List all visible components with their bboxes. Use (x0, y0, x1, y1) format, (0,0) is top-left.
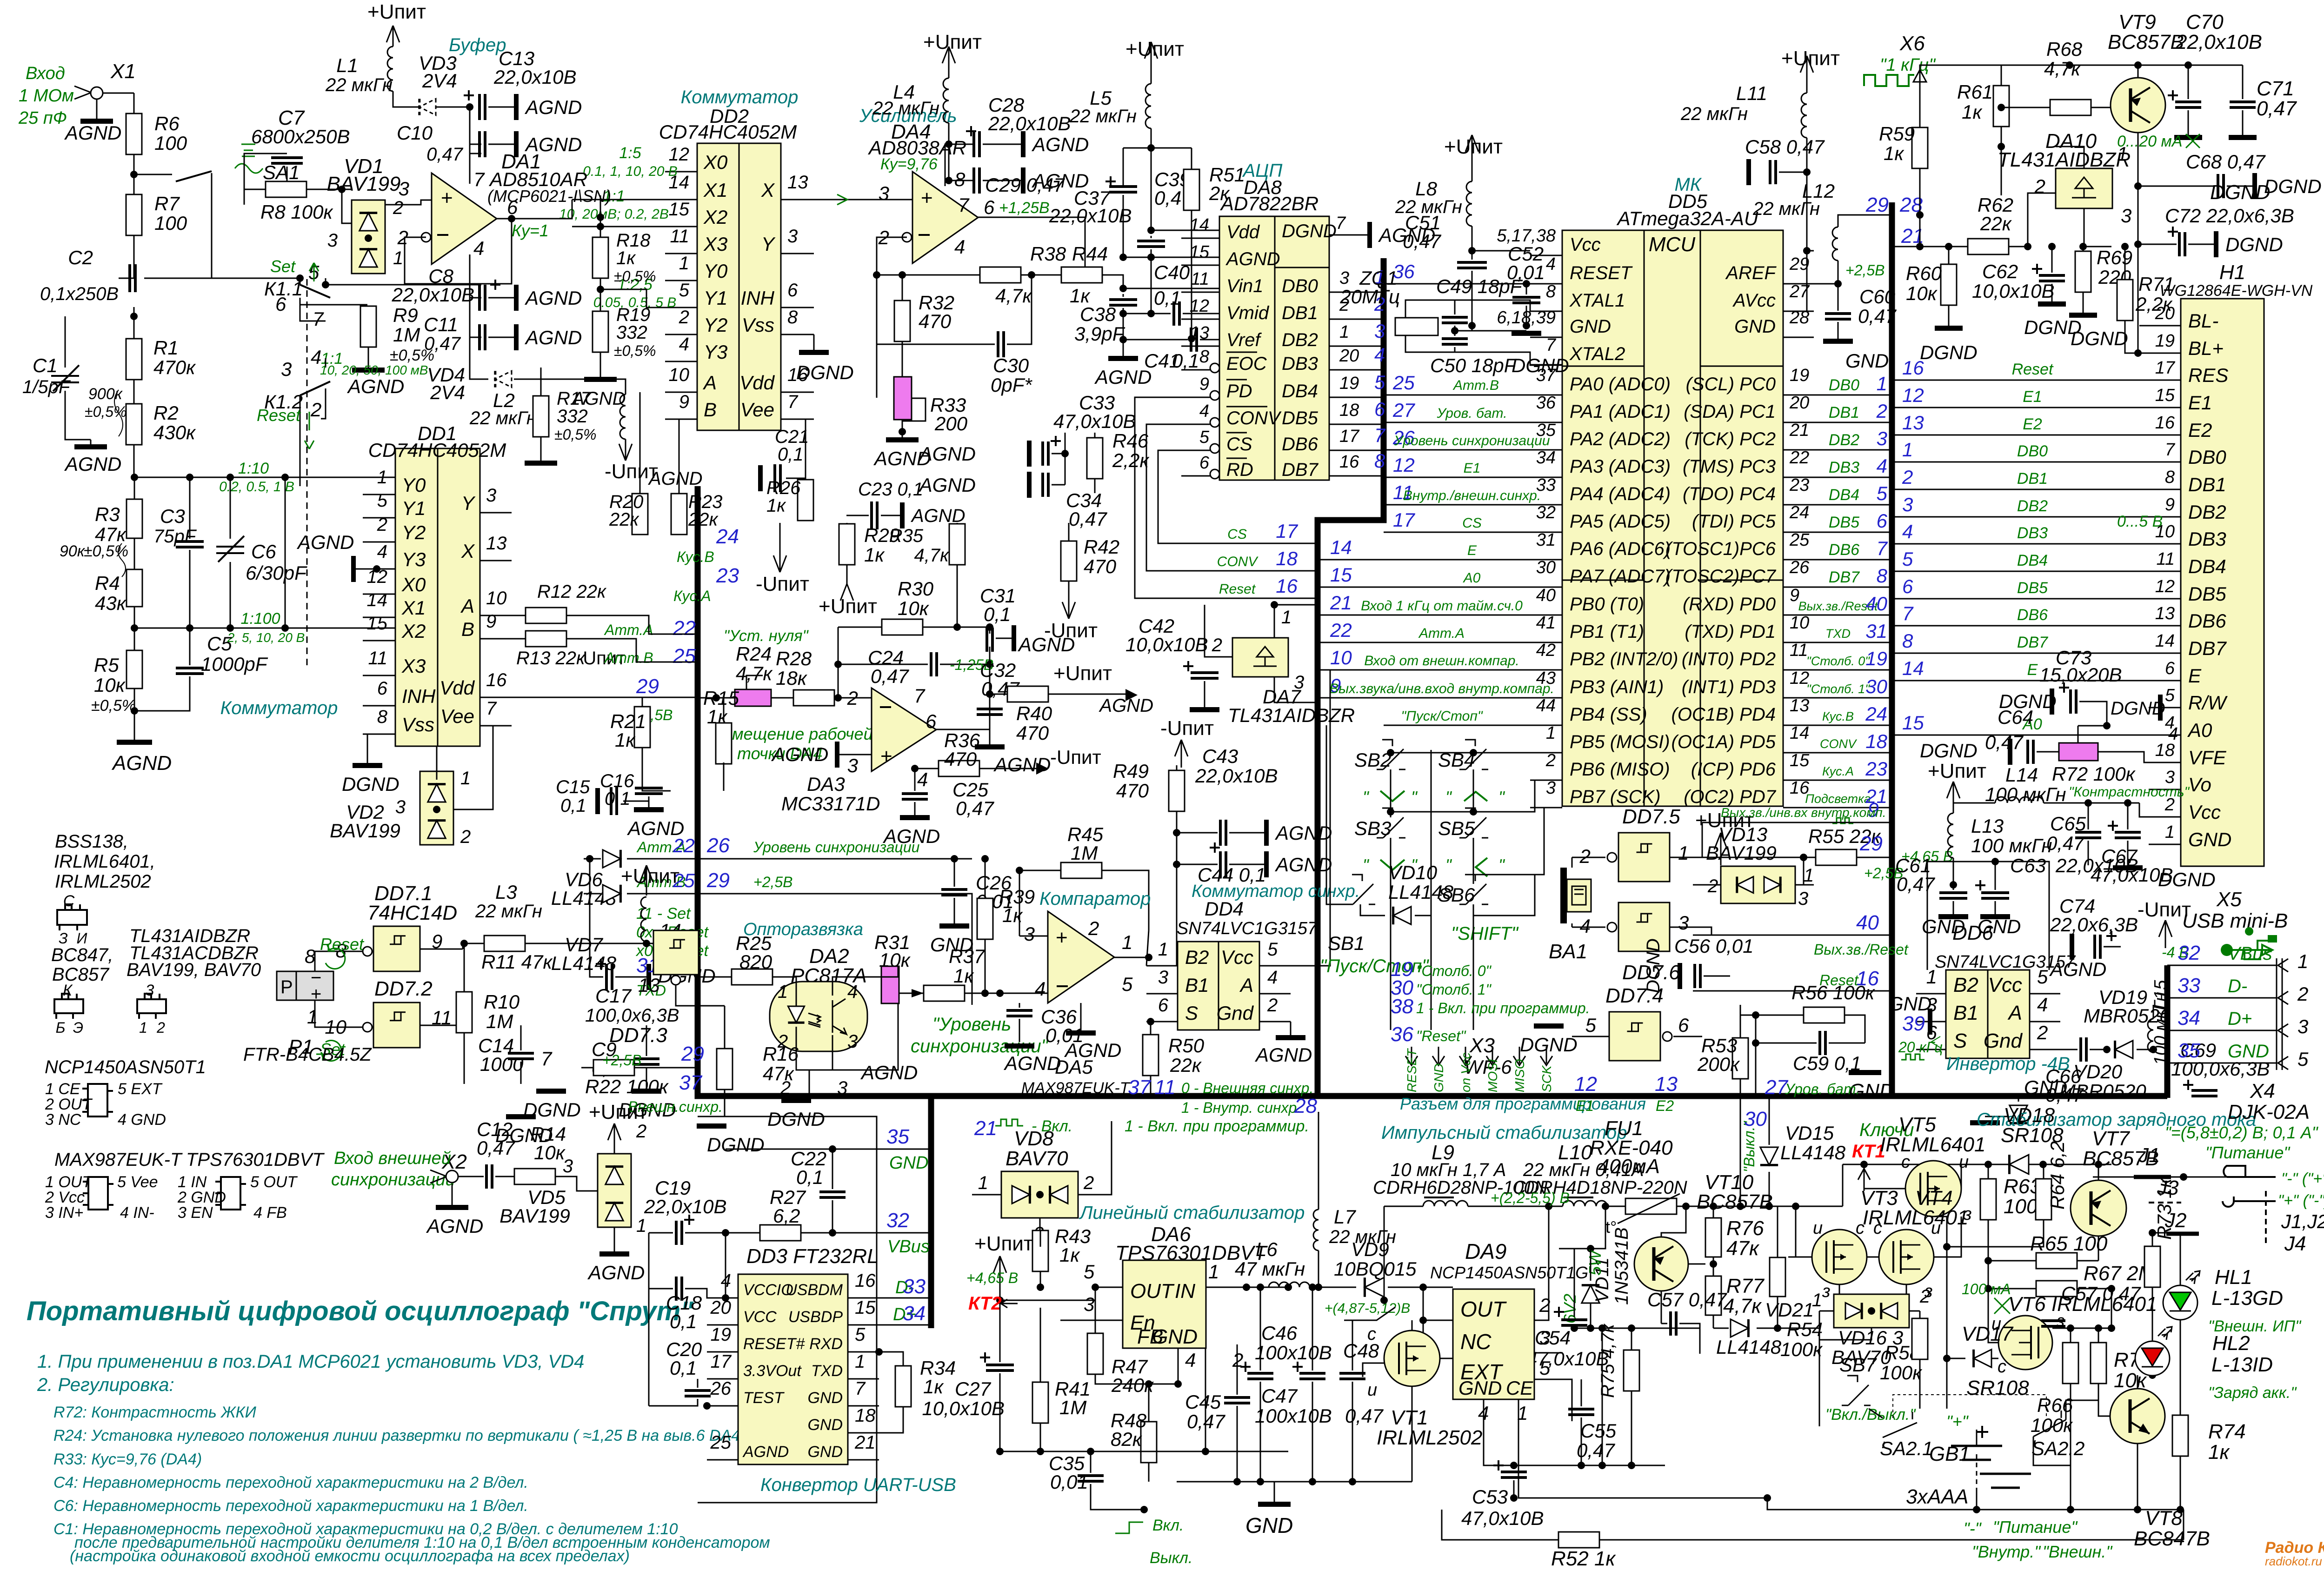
svg-text:C5: C5 (207, 633, 232, 655)
svg-text:PA2 (ADC2): PA2 (ADC2) (1570, 429, 1671, 449)
svg-text:(SCL) PC0: (SCL) PC0 (1686, 374, 1776, 394)
svg-text:11: 11 (1154, 1076, 1176, 1099)
svg-text:"Reset": "Reset" (1416, 1028, 1466, 1044)
svg-text:15: 15 (2155, 386, 2175, 405)
led HL1 L-13GD (2163, 1285, 2197, 1320)
svg-text:1к: 1к (953, 965, 974, 987)
svg-text:2,2к: 2,2к (1112, 449, 1150, 471)
svg-text:16: 16 (1339, 452, 1359, 472)
svg-text:900к: 900к (88, 385, 123, 403)
svg-text:C6: C6 (251, 541, 276, 562)
svg-text:З: З (59, 930, 68, 947)
svg-text:5: 5 (855, 1324, 866, 1345)
svg-text:VCC: VCC (743, 1308, 777, 1326)
svg-text:AGND: AGND (64, 122, 121, 144)
svg-text:MAX987EUK-T: MAX987EUK-T (1021, 1079, 1131, 1097)
svg-text:1N5341B: 1N5341B (1611, 1227, 1632, 1305)
svg-text:3 NC: 3 NC (45, 1111, 81, 1129)
svg-text:7: 7 (313, 308, 324, 330)
svg-text:X0: X0 (401, 574, 426, 595)
wire DA5 + (1019, 936, 1048, 937)
svg-text:"-" ("+"): "-" ("+") (2281, 1170, 2324, 1188)
wire MCU PD row Кус.А (1814, 780, 1892, 781)
wire DB0 to H1 (1892, 461, 2149, 463)
svg-text:A: A (1239, 974, 1253, 996)
svg-text:и: и (1813, 1218, 1823, 1238)
wire MCU row 11 (1384, 504, 1562, 506)
svg-text:Вкл.: Вкл. (1152, 1517, 1184, 1534)
svg-text:Vdd: Vdd (439, 677, 475, 699)
svg-text:C57 0,47: C57 0,47 (1647, 1289, 1727, 1310)
svg-text:SB3: SB3 (1354, 817, 1391, 839)
svg-text:3 IN+: 3 IN+ (45, 1204, 83, 1222)
svg-text:DB6: DB6 (1829, 541, 1859, 559)
resistor R44 1к (1061, 267, 1102, 283)
svg-text:BC847,: BC847, (51, 945, 113, 965)
svg-text:6: 6 (1158, 995, 1169, 1016)
svg-text:(INT0) PD2: (INT0) PD2 (1682, 649, 1776, 669)
svg-text:R38: R38 (1030, 243, 1066, 265)
svg-text:(TXD) PD1: (TXD) PD1 (1685, 622, 1776, 642)
svg-text:1к: 1к (1059, 1244, 1080, 1266)
svg-text:1: 1 (855, 1351, 865, 1372)
svg-text:22: 22 (1789, 448, 1809, 468)
wire VD16 to VT2 column (1819, 1311, 1820, 1426)
wire DD7.6 row to bus (1702, 927, 1711, 935)
svg-text:FTR-B4CB4.5Z: FTR-B4CB4.5Z (243, 1044, 372, 1065)
capacitor C67 47,0х10В (2115, 832, 2141, 838)
section box UART-USB (698, 1116, 877, 1503)
svg-text:NC: NC (1460, 1330, 1492, 1354)
svg-text:19: 19 (1865, 648, 1887, 669)
inductor L1 22 мкГн (393, 26, 394, 47)
wire 1:100 row (134, 628, 395, 629)
svg-text:USBDM: USBDM (786, 1281, 843, 1299)
svg-text:X4: X4 (2250, 1080, 2275, 1103)
svg-text:GND: GND (1570, 316, 1611, 337)
svg-text:23: 23 (716, 564, 739, 587)
switch SA2.1 (1883, 1412, 1917, 1448)
svg-text:430к: 430к (153, 421, 196, 443)
svg-text:3: 3 (1798, 889, 1808, 909)
svg-text:0,1: 0,1 (984, 603, 1011, 625)
svg-text:4: 4 (917, 769, 928, 790)
inductor L7 22 мкГн (1313, 1210, 1318, 1250)
svg-text:Коммутатор: Коммутатор (220, 698, 338, 718)
svg-text:OUT: OUT (1130, 1280, 1175, 1303)
button SB3 (1377, 808, 1405, 838)
ground AGND bottom attenuator (134, 711, 135, 740)
svg-text:X1: X1 (401, 597, 426, 619)
svg-text:(MCP6021-I\SN): (MCP6021-I\SN) (487, 187, 611, 206)
resistor R18 1к (593, 237, 608, 278)
svg-text:21: 21 (1789, 421, 1809, 440)
svg-text:P: P (280, 977, 293, 997)
svg-text:(RXD) PD0: (RXD) PD0 (1683, 594, 1776, 615)
svg-text:R6: R6 (154, 113, 180, 134)
svg-text:1: 1 (1281, 607, 1292, 628)
svg-text:2: 2 (1088, 917, 1099, 939)
svg-text:±0,5%: ±0,5% (390, 347, 434, 364)
svg-text:41: 41 (1536, 613, 1556, 633)
svg-text:7: 7 (1902, 602, 1914, 624)
svg-text:4: 4 (847, 982, 858, 1002)
svg-text:Y1: Y1 (402, 497, 426, 519)
svg-text:1:10: 1:10 (238, 460, 269, 477)
resistor R50 22к (1143, 1035, 1159, 1076)
svg-text:L7: L7 (1334, 1206, 1356, 1228)
svg-text:90к: 90к (60, 542, 86, 560)
svg-text:7: 7 (2165, 440, 2176, 460)
svg-text:8: 8 (305, 945, 316, 967)
svg-text:"Внешн.": "Внешн." (2043, 1542, 2113, 1561)
svg-text:4 GND: 4 GND (118, 1111, 166, 1129)
svg-text:R2: R2 (153, 402, 179, 424)
ground AGND at DA8 DGND (1367, 222, 1372, 248)
svg-text:0,47: 0,47 (1187, 1411, 1225, 1432)
wire button row PB5 (1391, 752, 1562, 754)
diode VD1 BAV199 (352, 200, 385, 274)
pin MOSI X3 (1486, 1047, 1498, 1065)
wire MCU row 26 (1384, 449, 1562, 451)
wire DB1 to H1 (1892, 489, 2149, 490)
svg-text:47к: 47к (1726, 1237, 1760, 1260)
svg-text:0,47: 0,47 (477, 1137, 515, 1159)
svg-text:4: 4 (1035, 978, 1045, 1000)
svg-text:19: 19 (2155, 331, 2175, 351)
power -Uпит R26 (779, 523, 781, 572)
svg-text:R71: R71 (2138, 273, 2174, 295)
svg-text:VT7: VT7 (2092, 1127, 2130, 1150)
svg-text:2: 2 (2034, 175, 2045, 197)
svg-text:6: 6 (926, 710, 937, 732)
svg-text:1: 1 (1158, 939, 1168, 960)
svg-text:47к: 47к (763, 1063, 795, 1084)
svg-text:+Uпит: +Uпит (1928, 760, 1986, 782)
svg-text:DB4: DB4 (2017, 552, 2048, 569)
svg-text:Линейный стабилизатор: Линейный стабилизатор (1079, 1203, 1305, 1223)
svg-text:"Уровень: "Уровень (932, 1014, 1011, 1035)
svg-text:C2: C2 (68, 247, 93, 268)
svg-text:R9: R9 (393, 304, 418, 326)
wire dashed relay link (300, 278, 301, 285)
svg-text:17: 17 (2155, 358, 2176, 378)
svg-text:39: 39 (1902, 1012, 1925, 1035)
svg-text:5 OUT: 5 OUT (250, 1173, 298, 1191)
svg-text:3.3VOut: 3.3VOut (743, 1362, 802, 1380)
svg-text:PD: PD (1226, 381, 1252, 401)
svg-text:BAV199: BAV199 (1706, 842, 1777, 864)
svg-text:GND: GND (2188, 829, 2231, 850)
svg-text:10,0х10В: 10,0х10В (922, 1397, 1005, 1419)
svg-text:Vref: Vref (1226, 330, 1262, 350)
svg-text:DB4: DB4 (1829, 486, 1859, 504)
svg-text:4,7к: 4,7к (736, 662, 773, 684)
svg-text:R59: R59 (1879, 123, 1915, 145)
svg-text:DGND: DGND (1643, 938, 1664, 993)
resistor R9 1M (360, 306, 376, 347)
svg-text:(SDA) PC1: (SDA) PC1 (1684, 401, 1776, 422)
svg-text:2: 2 (1707, 876, 1718, 896)
button SB5 (1459, 808, 1488, 838)
svg-text:VT9: VT9 (2118, 11, 2156, 33)
wire MCU row 36 (1384, 283, 1562, 285)
svg-text:SN74LVC1G3157: SN74LVC1G3157 (1177, 919, 1318, 938)
svg-text:A0: A0 (1463, 570, 1481, 586)
wire DB6 from DD5 (1783, 559, 1892, 561)
ground AGND C32 (989, 717, 991, 744)
svg-text:GND: GND (1888, 993, 1931, 1015)
svg-text:34: 34 (1536, 448, 1556, 468)
svg-text:2V4: 2V4 (430, 381, 465, 403)
svg-text:3: 3 (399, 178, 409, 200)
svg-text:": " (1411, 788, 1418, 807)
svg-text:": " (1363, 856, 1370, 875)
wire DA3 out (936, 664, 990, 729)
svg-text:(ICP) PD6: (ICP) PD6 (1691, 759, 1776, 780)
svg-text:1к: 1к (864, 544, 885, 566)
svg-text:B1: B1 (1953, 1002, 1978, 1024)
svg-text:DD7.2: DD7.2 (374, 977, 433, 1000)
resistor R39 1к (977, 898, 993, 939)
svg-text:PB7 (SCK): PB7 (SCK) (1570, 787, 1661, 807)
svg-text:X3: X3 (703, 233, 727, 255)
svg-text:+Uпит: +Uпит (367, 0, 426, 23)
ground AGND at X1 (96, 99, 98, 119)
resistor R14 10к (514, 1169, 555, 1184)
svg-text:PA6 (ADC6): PA6 (ADC6) (1570, 539, 1671, 559)
svg-text:DGND: DGND (1282, 221, 1337, 241)
ground AGND DD4 (1290, 1022, 1292, 1035)
svg-text:11: 11 (2157, 549, 2175, 569)
svg-text:34: 34 (2178, 1007, 2200, 1030)
svg-text:4,7к: 4,7к (914, 545, 950, 566)
svg-text:L3: L3 (495, 881, 517, 903)
svg-text:AGND: AGND (346, 375, 404, 397)
svg-text:12: 12 (1902, 384, 1924, 406)
svg-text:R40: R40 (1016, 702, 1052, 724)
wire 1:10 row (134, 477, 395, 478)
wire DA5 - (1000, 993, 1048, 994)
svg-text:C64: C64 (1998, 706, 2033, 728)
svg-text:6: 6 (1877, 510, 1888, 532)
svg-text:0,47: 0,47 (956, 797, 994, 819)
trimmer R72 100к (2059, 743, 2098, 761)
resistor R70 10к (2091, 1343, 2106, 1384)
svg-text:3: 3 (1084, 1293, 1094, 1315)
svg-text:Ку=1: Ку=1 (512, 221, 549, 240)
wire DA9 gnd rail (1484, 1399, 1665, 1465)
svg-text:22 мкГн: 22 мкГн (872, 98, 939, 119)
svg-text:DGND: DGND (2225, 234, 2283, 255)
svg-text:C68 0,47: C68 0,47 (2186, 151, 2266, 173)
svg-text:Y1: Y1 (704, 287, 727, 309)
svg-text:R64 6,2: R64 6,2 (2046, 1141, 2068, 1210)
svg-text:DB5: DB5 (1829, 514, 1859, 531)
svg-text:1:100: 1:100 (240, 610, 280, 628)
svg-text:22 мкГн: 22 мкГн (325, 75, 393, 95)
ground AGND at DD1 Y3 (351, 556, 356, 582)
svg-text:8: 8 (954, 168, 966, 190)
inverter DD7.4 (1609, 1012, 1660, 1061)
svg-text:5: 5 (1877, 482, 1888, 504)
diode VD2 BAV199 (420, 771, 453, 845)
svg-text:DB6: DB6 (2017, 606, 2048, 624)
wire DB3 from DD5 (1783, 477, 1892, 478)
resistor R34 1к (895, 1366, 911, 1407)
svg-text:31: 31 (1865, 620, 1887, 642)
svg-text:R68: R68 (2046, 38, 2083, 60)
svg-text:R54: R54 (1787, 1318, 1823, 1340)
svg-text:D+: D+ (2228, 1009, 2252, 1029)
transistor VT1 IRLML2502 (1384, 1330, 1440, 1386)
svg-text:3: 3 (787, 226, 798, 247)
svg-text:GND: GND (1734, 316, 1776, 337)
svg-text:4 FB: 4 FB (253, 1204, 287, 1222)
svg-text:-Uпит: -Uпит (1050, 746, 1101, 768)
svg-text:GND: GND (1152, 1325, 1198, 1348)
svg-text:+(2,2-5,5) В: +(2,2-5,5) В (1491, 1190, 1570, 1206)
svg-text:+Uпит: +Uпит (1444, 135, 1503, 158)
svg-text:3: 3 (1877, 428, 1887, 449)
svg-text:0 - Внешняя синхр.: 0 - Внешняя синхр. (1181, 1080, 1313, 1096)
svg-text:D-: D- (2228, 976, 2247, 996)
svg-text:3: 3 (146, 982, 154, 999)
svg-text:J3: J3 (2157, 1177, 2179, 1199)
svg-text:XTAL1: XTAL1 (1569, 290, 1625, 311)
svg-text:Vcc: Vcc (2188, 801, 2221, 823)
svg-text:AD7822BR: AD7822BR (1219, 193, 1318, 214)
svg-text:0,1: 0,1 (1154, 287, 1181, 309)
svg-text:-Uпит: -Uпит (756, 573, 809, 595)
svg-text:18: 18 (855, 1405, 876, 1426)
svg-text:R13 22к: R13 22к (516, 648, 586, 669)
svg-text:470: 470 (1016, 722, 1049, 744)
resistor R16 47к (717, 1049, 732, 1090)
wire row CS left (1158, 450, 1318, 543)
svg-text:100к: 100к (1880, 1362, 1923, 1384)
svg-text:(INT1) PD3: (INT1) PD3 (1682, 677, 1776, 697)
svg-text:Кус.В: Кус.В (677, 548, 714, 565)
svg-text:C1: C1 (33, 354, 58, 376)
svg-text:"+": "+" (1946, 1412, 1969, 1431)
svg-text:Vss: Vss (402, 714, 434, 735)
svg-text:40: 40 (1865, 593, 1887, 615)
svg-text:2: 2 (377, 515, 387, 535)
svg-text:6/30pF: 6/30pF (246, 562, 307, 584)
switch DD1 CD74HC4052M (395, 448, 438, 746)
resistor R2 430к (126, 404, 142, 445)
resistor R11 47к (484, 936, 525, 951)
svg-text:Уров. бат.: Уров. бат. (1436, 406, 1507, 421)
svg-text:C55: C55 (1580, 1420, 1617, 1442)
svg-text:0,1: 0,1 (670, 1357, 697, 1379)
resistor R33 200 trimmer (894, 377, 912, 420)
svg-text:10, 20мВ; 0.2, 2В: 10, 20мВ; 0.2, 2В (559, 207, 669, 222)
svg-text:47 мкГн: 47 мкГн (1235, 1258, 1305, 1280)
svg-text:A0: A0 (2187, 719, 2212, 741)
svg-text:10: 10 (486, 588, 507, 608)
svg-text:Y: Y (461, 492, 476, 514)
svg-text:20МГц: 20МГц (1339, 286, 1400, 308)
wire row Reset 16 (1693, 990, 1892, 992)
wire Reset to H1 (1892, 380, 2149, 381)
svg-text:24: 24 (1865, 703, 1887, 725)
svg-text:2: 2 (1083, 1173, 1094, 1193)
power +Uпит DA6 (999, 1256, 1001, 1293)
svg-text:BAV199, BAV70: BAV199, BAV70 (127, 960, 261, 980)
svg-text:14: 14 (1902, 657, 1924, 679)
svg-text:INH: INH (741, 287, 775, 309)
wire X input to DD1 (285, 477, 286, 628)
svg-text:32: 32 (1536, 503, 1556, 522)
svg-text:Э: Э (73, 1019, 83, 1036)
svg-text:4: 4 (679, 334, 689, 354)
svg-text:0,1: 0,1 (605, 789, 631, 809)
wire to DD7.3 (646, 943, 653, 944)
svg-text:MC33171D: MC33171D (781, 793, 880, 815)
svg-text:1к: 1к (1962, 101, 1983, 123)
display connector H1 WG12864E-WGH-VN (2181, 299, 2264, 866)
svg-text:18: 18 (1865, 730, 1887, 752)
svg-text:on Vcc: on Vcc (1458, 1052, 1473, 1092)
pin SCK X3 (1540, 1047, 1552, 1065)
resistor R22 100к (593, 1060, 634, 1076)
wire E2 to H1 (1892, 435, 2149, 436)
svg-text:+: + (311, 984, 321, 1004)
svg-text:40: 40 (1536, 586, 1556, 605)
svg-text:33: 33 (2178, 974, 2200, 997)
svg-text:DB7: DB7 (2017, 634, 2048, 651)
svg-text:0,1: 0,1 (1172, 350, 1199, 372)
svg-text:4 IN-: 4 IN- (120, 1204, 154, 1222)
svg-text:TXD: TXD (811, 1362, 843, 1380)
svg-text:B: B (461, 618, 474, 640)
svg-text:И: И (77, 930, 87, 947)
wire buttons to X3 columns (1390, 886, 1392, 1030)
svg-text:C57 0,47: C57 0,47 (2061, 1283, 2141, 1304)
resistor R73 1к (2144, 1246, 2160, 1287)
svg-text:C48: C48 (1343, 1340, 1379, 1362)
svg-text:5: 5 (1902, 548, 1913, 570)
wire crystal gnd (1455, 330, 1526, 332)
svg-text:26: 26 (1789, 558, 1810, 577)
svg-text:E: E (2188, 665, 2202, 687)
svg-text:12: 12 (669, 144, 690, 165)
svg-text:+2,5В: +2,5В (753, 874, 793, 890)
wire SB1 VD10 chain (1360, 904, 1376, 916)
button SB6 (1459, 875, 1488, 904)
svg-text:VD10: VD10 (1388, 862, 1438, 883)
svg-text:"Столб. 1": "Столб. 1" (1416, 981, 1492, 998)
ground GND pulse reg (1177, 1481, 1412, 1483)
svg-text:PA1 (ADC1): PA1 (ADC1) (1570, 401, 1671, 422)
svg-text:10к: 10к (94, 674, 126, 696)
svg-text:и: и (1959, 1152, 1969, 1172)
svg-text:CS: CS (1462, 515, 1482, 531)
resistor R66 100к (2063, 1343, 2078, 1384)
svg-text:26: 26 (706, 834, 730, 857)
svg-text:CONV: CONV (1820, 737, 1858, 751)
svg-text:Vdd: Vdd (739, 372, 775, 394)
svg-text:Буфер: Буфер (449, 35, 506, 55)
svg-text:2: 2 (1919, 1286, 1930, 1307)
svg-text:DB1: DB1 (1282, 303, 1318, 323)
svg-text:DA9: DA9 (1465, 1239, 1506, 1263)
svg-text:4: 4 (1185, 1349, 1196, 1371)
svg-text:30: 30 (1744, 1108, 1767, 1130)
svg-text:PB5 (MOSI): PB5 (MOSI) (1570, 732, 1670, 752)
